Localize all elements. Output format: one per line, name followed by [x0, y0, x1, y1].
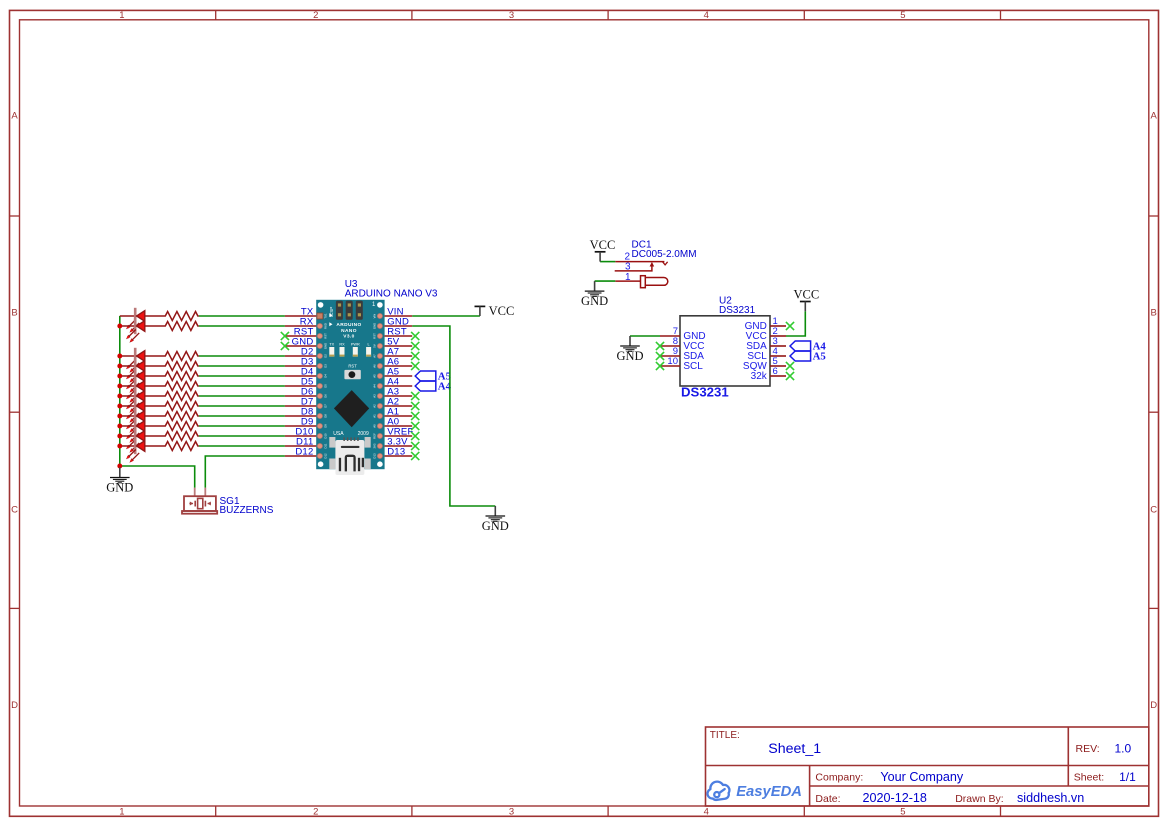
svg-text:D: D: [11, 700, 18, 711]
svg-text:10: 10: [667, 356, 678, 367]
svg-text:D5: D5: [324, 384, 328, 388]
wire VCC to DC1 pin 2: [600, 261, 615, 263]
svg-text:D13: D13: [387, 447, 405, 458]
pin 2 VCC (U2 right): [770, 335, 786, 337]
pin 6 32k (U2 right): [770, 375, 786, 377]
svg-text:5V: 5V: [373, 344, 377, 348]
wire D3 resistor to pin: [199, 365, 285, 367]
no-connect 3.3V: [411, 442, 419, 450]
svg-text:1: 1: [119, 807, 124, 818]
svg-text:A5: A5: [813, 351, 826, 363]
svg-text:USA: USA: [333, 431, 344, 437]
junction on GND bus at RX row: [117, 324, 122, 329]
LED D7 row: [120, 405, 137, 407]
svg-text:5: 5: [900, 807, 905, 818]
svg-text:D8: D8: [324, 414, 328, 418]
svg-text:D7: D7: [324, 404, 328, 408]
junction on GND bus at D10 row: [117, 434, 122, 439]
svg-text:EasyEDA: EasyEDA: [736, 784, 802, 800]
wire GND bus to buzzer pin 1: [120, 466, 195, 488]
ground (LED bus): [119, 468, 121, 478]
svg-text:5: 5: [900, 10, 905, 21]
wire D8 resistor to pin: [199, 415, 285, 417]
svg-text:GND: GND: [324, 343, 328, 349]
pin D11 (left): [285, 445, 316, 447]
svg-text:2: 2: [313, 10, 318, 21]
LED D9 row: [120, 425, 137, 427]
no-connect A2: [411, 402, 419, 410]
pin RST (left): [285, 335, 316, 337]
resistor D10 row: [145, 432, 199, 441]
no-connect RST: [411, 332, 419, 340]
svg-text:RST: RST: [348, 364, 357, 369]
svg-text:A6: A6: [373, 364, 377, 368]
pin D10 (left): [285, 435, 316, 437]
no-connect U2 pin 8: [656, 342, 664, 350]
no-connect left row 346: [281, 342, 289, 350]
pin A3 (right): [385, 395, 413, 397]
resistor D8 row: [145, 412, 199, 421]
wire DC1 pin 1 to ground: [595, 280, 616, 282]
svg-text:3: 3: [509, 10, 514, 21]
svg-text:GND: GND: [581, 294, 608, 308]
svg-text:B: B: [11, 308, 17, 319]
junction on GND bus at D9 row: [117, 424, 122, 429]
pin A4 (right): [385, 385, 413, 387]
pin 7 GND (U2 left): [660, 335, 680, 337]
wire RX resistor to pin: [199, 325, 285, 327]
resistor D6 row: [145, 392, 199, 401]
pin D3 (left): [285, 365, 316, 367]
svg-text:RST: RST: [324, 333, 328, 339]
pin TX (left): [285, 315, 316, 317]
svg-text:2020-12-18: 2020-12-18: [863, 791, 927, 805]
wire D6 resistor to pin: [199, 395, 285, 397]
svg-text:TX1: TX1: [324, 313, 328, 319]
no-connect A1: [411, 412, 419, 420]
pin D12 (left): [285, 455, 316, 457]
svg-text:ARDUINO: ARDUINO: [336, 322, 361, 328]
resistor D3 row: [145, 362, 199, 371]
no-connect VREF: [411, 432, 419, 440]
junction GND bus bottom: [117, 464, 122, 469]
pin 1 GND (U2 right): [770, 325, 786, 327]
net flag A5 (U2): [790, 351, 811, 361]
pin D7 (left): [285, 405, 316, 407]
svg-text:TITLE:: TITLE:: [710, 730, 740, 741]
pin RX (left): [285, 325, 316, 327]
no-connect A7: [411, 352, 419, 360]
svg-text:RST: RST: [373, 333, 377, 339]
net flag A4 (U2): [790, 341, 811, 351]
EasyEDA logo: [706, 780, 731, 801]
LED D10 row: [120, 435, 137, 437]
LED D5 row: [120, 385, 137, 387]
svg-text:D13: D13: [373, 453, 377, 459]
svg-text:Company:: Company:: [815, 772, 863, 784]
pin 9 SDA (U2 left): [660, 355, 680, 357]
LED RX row: [120, 325, 137, 327]
wire D5 resistor to pin: [199, 385, 285, 387]
svg-text:Drawn By:: Drawn By:: [955, 793, 1003, 805]
pin D8 (left): [285, 415, 316, 417]
svg-text:REV:: REV:: [1076, 743, 1100, 755]
title block grid: [706, 727, 1149, 806]
pin RST (right): [385, 335, 413, 337]
svg-text:Sheet:: Sheet:: [1074, 772, 1104, 784]
pin A0 (right): [385, 425, 413, 427]
svg-text:L: L: [368, 343, 370, 347]
svg-text:SCL: SCL: [683, 361, 703, 372]
svg-text:D2: D2: [324, 354, 328, 358]
pin 4 SCL (U2 right): [770, 355, 786, 357]
GND bus wire (LED cathodes): [119, 316, 121, 466]
svg-text:C: C: [11, 505, 18, 516]
pin A6 (right): [385, 365, 413, 367]
LED D2 row: [120, 355, 137, 357]
resistor TX row: [145, 312, 199, 321]
resistor D2 row: [145, 352, 199, 361]
svg-text:Sheet_1: Sheet_1: [768, 741, 821, 757]
svg-text:2: 2: [313, 807, 318, 818]
pin 10 SCL (U2 left): [660, 365, 680, 367]
svg-text:D6: D6: [324, 394, 328, 398]
svg-text:1: 1: [625, 272, 631, 283]
svg-text:VCC: VCC: [794, 288, 820, 302]
no-connect U2 pin 6: [786, 372, 794, 380]
ground (DC1): [594, 281, 596, 291]
pin A1 (right): [385, 415, 413, 417]
svg-text:RXD: RXD: [324, 323, 328, 329]
svg-text:1/1: 1/1: [1119, 770, 1136, 784]
svg-text:A2: A2: [373, 404, 377, 408]
no-connect U2 pin 5: [786, 362, 794, 370]
resistor D5 row: [145, 382, 199, 391]
ground (U2): [629, 336, 631, 346]
no-connect A6: [411, 362, 419, 370]
svg-text:A1: A1: [373, 414, 377, 418]
svg-text:D11: D11: [324, 443, 328, 448]
junction on GND bus at D11 row: [117, 444, 122, 449]
VCC port (U2): [800, 301, 811, 303]
svg-text:VCC: VCC: [489, 304, 515, 318]
svg-text:A4: A4: [373, 384, 377, 388]
wire U2 VCC pin 2: [786, 311, 805, 336]
svg-text:32k: 32k: [751, 371, 768, 382]
pin 8 VCC (U2 left): [660, 345, 680, 347]
pin D4 (left): [285, 375, 316, 377]
resistor D11 row: [145, 442, 199, 451]
resistor D7 row: [145, 402, 199, 411]
junction on GND bus at D5 row: [117, 384, 122, 389]
svg-text:siddhesh.vn: siddhesh.vn: [1017, 791, 1084, 805]
svg-text:ARDUINO NANO V3: ARDUINO NANO V3: [345, 289, 438, 300]
svg-text:A: A: [1151, 111, 1158, 122]
pin VREF (right): [385, 435, 413, 437]
svg-text:D4: D4: [324, 374, 328, 378]
pin 3.3V (right): [385, 445, 413, 447]
no-connect U2 pin 10: [656, 362, 664, 370]
svg-text:3V3: 3V3: [373, 443, 377, 448]
svg-text:A3: A3: [373, 394, 377, 398]
svg-text:D12: D12: [295, 447, 313, 458]
svg-text:A5: A5: [373, 374, 377, 378]
svg-text:C: C: [1150, 505, 1157, 516]
ground (arduino GND): [494, 506, 496, 516]
pin D13 (right): [385, 455, 413, 457]
no-connect A0: [411, 422, 419, 430]
pin GND (left): [285, 345, 316, 347]
svg-text:A7: A7: [373, 354, 377, 358]
resistor D4 row: [145, 372, 199, 381]
VCC port (arduino VIN): [475, 305, 486, 307]
wire D12 to buzzer pin 2: [205, 456, 285, 488]
no-connect A3: [411, 392, 419, 400]
DC jack DC1: [615, 262, 668, 288]
pin 5V (right): [385, 345, 413, 347]
svg-text:2009: 2009: [358, 431, 369, 437]
net flag A4 (arduino): [415, 381, 436, 391]
wire arduino GND to ground: [412, 326, 495, 506]
svg-text:DS3231: DS3231: [681, 385, 729, 400]
svg-text:4: 4: [704, 10, 709, 21]
IC U2 DS3231 body: [680, 316, 770, 386]
svg-text:GND: GND: [373, 323, 377, 329]
wire D2 resistor to pin: [199, 355, 285, 357]
no-connect 5V: [411, 342, 419, 350]
resistor RX row: [145, 322, 199, 331]
svg-text:D10: D10: [324, 433, 328, 439]
pin 5 SQW (U2 right): [770, 365, 786, 367]
svg-text:Date:: Date:: [815, 793, 840, 805]
junction on GND bus at D3 row: [117, 364, 122, 369]
svg-text:GND: GND: [482, 519, 509, 533]
pin A5 (right): [385, 375, 413, 377]
svg-text:BUZZERNS: BUZZERNS: [220, 505, 274, 516]
svg-text:6: 6: [773, 366, 778, 377]
wire VIN to VCC: [412, 315, 480, 317]
buzzer SG1: [182, 488, 217, 514]
svg-text:3: 3: [509, 807, 514, 818]
wire TX resistor to pin: [199, 315, 285, 317]
resistor D9 row: [145, 422, 199, 431]
junction on GND bus at D6 row: [117, 394, 122, 399]
svg-text:DC005-2.0MM: DC005-2.0MM: [632, 249, 697, 260]
svg-text:REF: REF: [373, 433, 377, 439]
pin 3 SDA (U2 right): [770, 345, 786, 347]
svg-text:PWR: PWR: [351, 343, 360, 347]
pin A2 (right): [385, 405, 413, 407]
junction on GND bus at D8 row: [117, 414, 122, 419]
wire U2 GND pin 7: [630, 335, 660, 337]
svg-text:VCC: VCC: [590, 238, 616, 252]
svg-text:D3: D3: [324, 364, 328, 368]
pin D5 (left): [285, 385, 316, 387]
LED D8 row: [120, 415, 137, 417]
LED TX row: [120, 315, 137, 317]
svg-text:D12: D12: [324, 453, 328, 459]
svg-text:D: D: [1150, 700, 1157, 711]
svg-text:NANO: NANO: [341, 328, 357, 334]
Arduino Nano U3 board: [316, 300, 384, 475]
svg-text:1: 1: [119, 10, 124, 21]
svg-text:RX: RX: [339, 343, 345, 347]
LED D11 row: [120, 445, 137, 447]
net flag A5 (arduino): [415, 371, 436, 381]
pin VIN (right): [385, 315, 413, 317]
svg-text:1.0: 1.0: [1115, 742, 1132, 756]
LED D4 row: [120, 375, 137, 377]
svg-text:VIN: VIN: [373, 314, 377, 319]
wire D7 resistor to pin: [199, 405, 285, 407]
svg-text:A0: A0: [373, 424, 377, 428]
svg-text:B: B: [1151, 308, 1157, 319]
svg-text:TX: TX: [329, 343, 334, 347]
svg-text:4: 4: [704, 807, 709, 818]
no-connect left row 336: [281, 332, 289, 340]
no-connect U2 pin 9: [656, 352, 664, 360]
VCC port (DC1): [595, 251, 606, 253]
svg-text:A: A: [11, 111, 18, 122]
pin GND (right): [385, 325, 413, 327]
LED D3 row: [120, 365, 137, 367]
wire D11 resistor to pin: [199, 445, 285, 447]
no-connect D13: [411, 452, 419, 460]
junction on GND bus at D4 row: [117, 374, 122, 379]
pin A7 (right): [385, 355, 413, 357]
svg-text:V3.0: V3.0: [343, 333, 354, 339]
LED D6 row: [120, 395, 137, 397]
pin D6 (left): [285, 395, 316, 397]
no-connect U2 pin 1: [786, 322, 794, 330]
junction on GND bus at D7 row: [117, 404, 122, 409]
svg-text:DS3231: DS3231: [719, 305, 756, 316]
junction on GND bus at D2 row: [117, 354, 122, 359]
wire D4 resistor to pin: [199, 375, 285, 377]
svg-text:GND: GND: [616, 349, 643, 363]
wire D9 resistor to pin: [199, 425, 285, 427]
svg-text:GND: GND: [106, 481, 133, 495]
pin D2 (left): [285, 355, 316, 357]
pin D9 (left): [285, 425, 316, 427]
svg-text:Your Company: Your Company: [880, 770, 964, 784]
wire D10 resistor to pin: [199, 435, 285, 437]
svg-text:D9: D9: [324, 424, 328, 428]
